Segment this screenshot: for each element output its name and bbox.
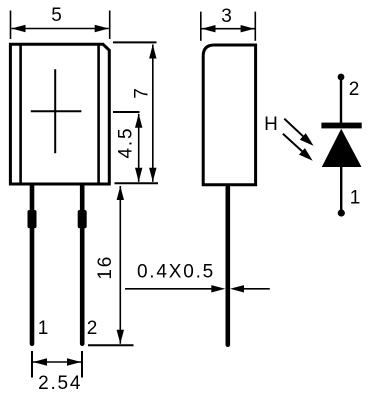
dimension 7: dimension line with arrows [149, 45, 156, 182]
svg-text:H: H [264, 114, 278, 135]
package front view left inner edge line [19, 44, 22, 184]
dimension 5: right extension line [109, 11, 111, 40]
dimension 4.5: dimension line with arrows [135, 114, 142, 182]
svg-text:5: 5 [51, 5, 62, 26]
svg-text:1: 1 [350, 188, 361, 209]
lead 2 (front view right lead) [80, 184, 85, 346]
photodiode symbol: anode triangle [322, 129, 362, 167]
svg-text:1: 1 [38, 318, 49, 339]
dimension 2.54: right tick line [81, 351, 83, 378]
photodiode symbol: terminal 2 dot [338, 74, 345, 81]
dimension 5: dimension line with arrows [12, 25, 109, 32]
side view lead [226, 185, 231, 347]
dimension 5: left extension line [10, 11, 12, 40]
svg-text:2: 2 [349, 79, 360, 100]
light arrow 1 [284, 119, 313, 146]
package front view body outline [10, 44, 109, 184]
package side view body outline [203, 45, 255, 185]
dimension 16: bottom extension line [88, 344, 134, 346]
dimension 2.54: dimension line with arrows [33, 358, 81, 365]
dimension 3: left extension line [200, 12, 202, 41]
dimension 7: bottom extension line [115, 182, 159, 184]
dimension 16: dimension line with arrows [117, 186, 124, 344]
svg-text:3: 3 [221, 6, 232, 27]
dimension 3: right extension line [254, 12, 256, 41]
svg-text:7: 7 [131, 88, 152, 99]
lead 1 (front view left lead) [30, 184, 35, 346]
photodiode symbol: cathode bar [321, 123, 361, 129]
lead 2 stand-off bump [78, 210, 87, 228]
photodiode symbol: anode wire [340, 167, 342, 213]
dimension 7: top extension line [113, 41, 157, 43]
light arrow 2 [283, 134, 313, 161]
svg-text:0.4X0.5: 0.4X0.5 [137, 262, 215, 283]
lead section right side left-pointing arrow [230, 285, 270, 292]
svg-text:4.5: 4.5 [115, 127, 136, 159]
dimension 3: dimension line with arrows [202, 25, 255, 32]
photodiode symbol: cathode wire [340, 77, 342, 124]
lead 1 stand-off bump [28, 210, 37, 228]
chip centre cross vertical line [54, 69, 56, 153]
photodiode symbol: terminal 1 dot [338, 209, 345, 216]
svg-text:16: 16 [95, 255, 116, 280]
chip centre cross horizontal line [31, 110, 82, 112]
dimension 4.5: top extension line [113, 111, 140, 113]
dimension 2.54: left tick line [31, 351, 33, 378]
svg-text:2.54: 2.54 [38, 373, 82, 394]
lead section leader line with right-pointing arrow [125, 285, 225, 292]
svg-text:2: 2 [87, 318, 98, 339]
package front view right inner edge line [97, 44, 100, 184]
